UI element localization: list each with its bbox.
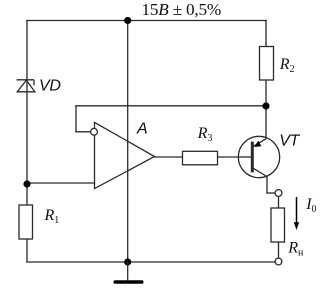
resistor R1 [19,205,33,239]
resistor R2 [260,47,274,81]
zener diode VD [17,80,35,92]
terminal collector output [275,190,282,197]
wire op-amp output [155,156,183,158]
wire R2 bottom to node [265,80,267,106]
ground [114,262,144,284]
wire feedback to inverting input [76,131,91,133]
wire bottom rail [27,261,275,263]
resistor R3 [183,151,218,165]
node supply junction [124,17,131,24]
wire non-inverting input [27,182,95,184]
wire R2 branch top [265,21,267,47]
wire collector to terminal [267,192,275,194]
op-amp U1 [91,122,155,188]
wire load top [278,196,280,208]
wire feedback horizontal [76,105,266,107]
wire left rail [26,21,28,263]
svg-text:VD: VD [39,77,61,94]
svg-text:VT: VT [279,133,300,150]
wire collector vertical [266,176,268,193]
node reference junction [23,180,30,187]
node ground junction [124,258,131,265]
node emitter/R2 junction [262,102,269,109]
transistor VT [238,136,279,177]
wire R3 to base [218,156,239,158]
svg-text:15В ± 0,5%: 15В ± 0,5% [142,0,222,19]
arrow I0 [294,197,299,230]
resistor Rn (load) [271,208,285,242]
svg-text:A: A [136,121,148,138]
wire load bottom [278,242,280,258]
wire supply-to-ground vertical [127,21,129,263]
wire top rail [27,20,266,22]
wire feedback vertical [75,106,77,132]
wire emitter vertical [265,106,267,138]
terminal load bottom [275,258,282,265]
